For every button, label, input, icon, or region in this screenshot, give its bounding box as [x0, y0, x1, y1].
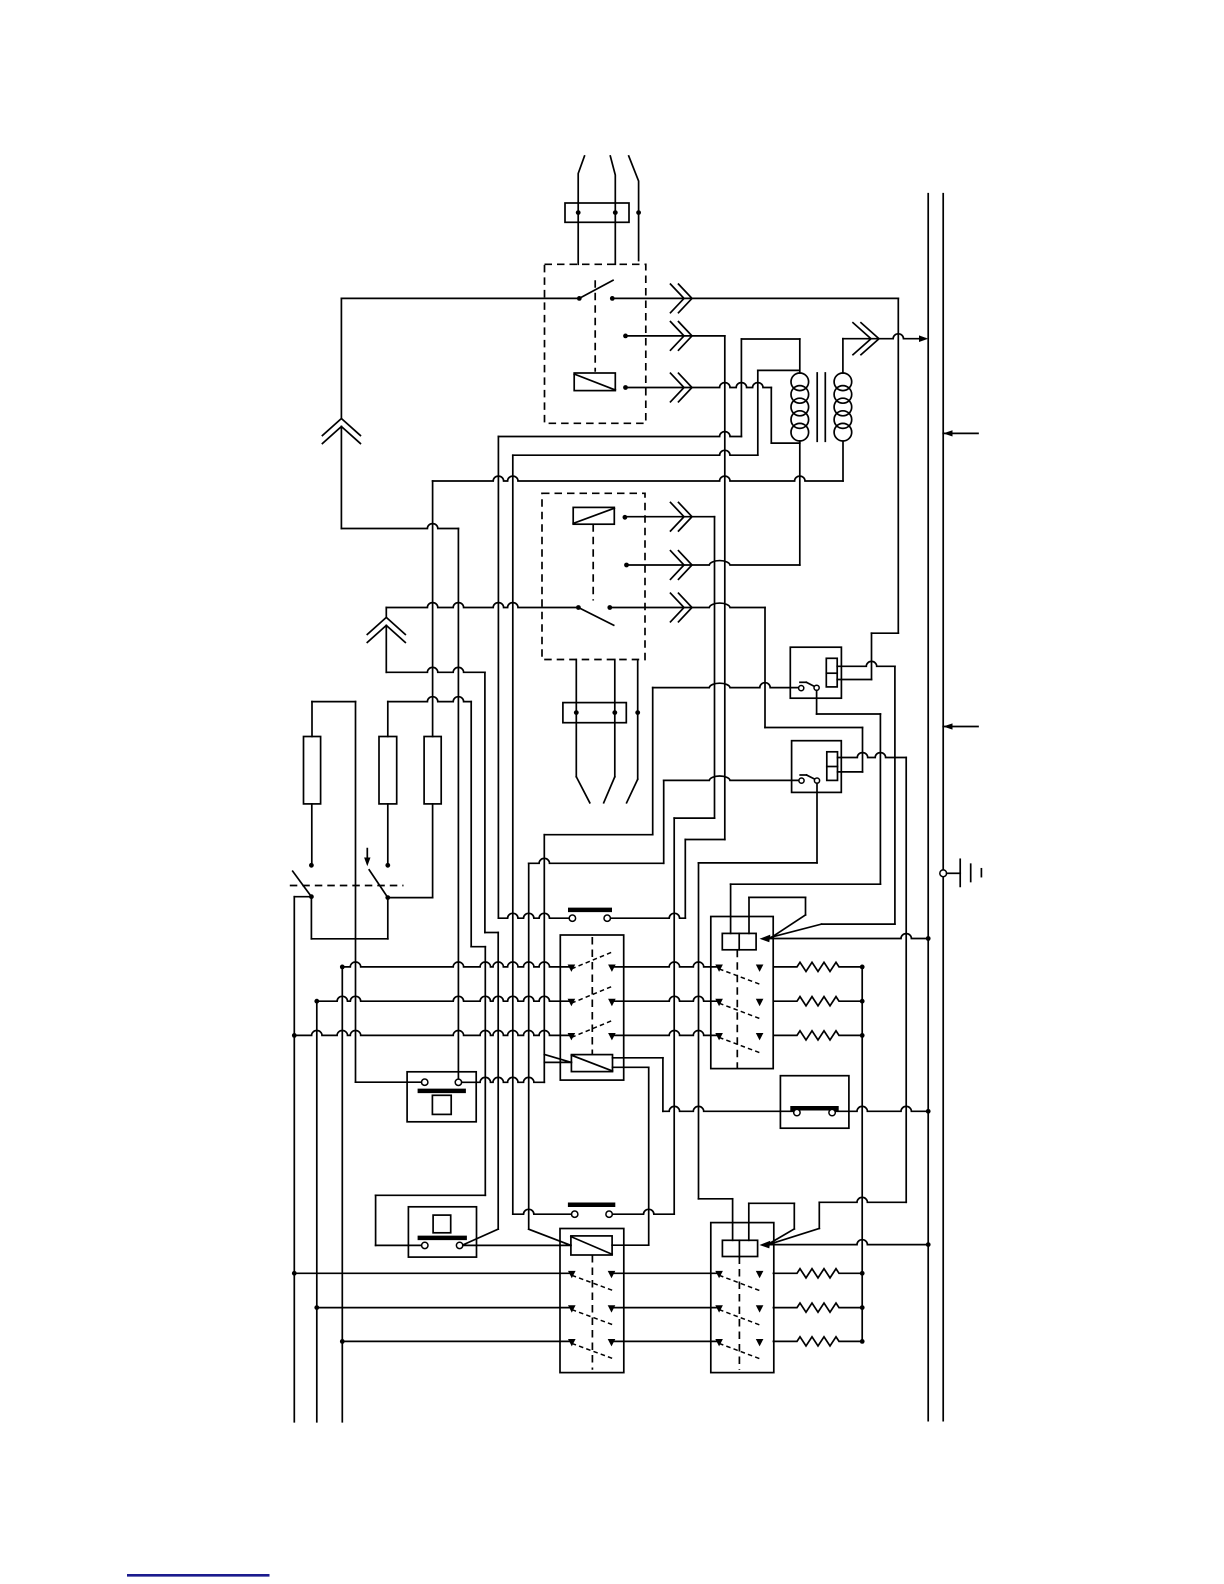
- wire row3 mid: [612, 1031, 719, 1036]
- transformer T1 core: [816, 373, 818, 441]
- wire KR2 cell2 feed: [748, 1203, 750, 1240]
- wire row2 drop to pushbutton S1: [684, 840, 686, 919]
- wire lateral y1202: [819, 1197, 906, 1202]
- wire KR1 cell1 feed: [730, 884, 732, 933]
- resistor KR2 row2: [773, 1303, 862, 1312]
- arrow KR2: [760, 1241, 771, 1249]
- node X2 pin2: [612, 710, 617, 715]
- connector chevron up CN1: [322, 419, 360, 436]
- plug prong 2: [604, 777, 615, 803]
- KR1 contact row1 R: [756, 965, 764, 972]
- wire rowB2 phase: [317, 1307, 572, 1309]
- switch gang dashed link: [290, 885, 404, 887]
- node bus y1244: [926, 1242, 931, 1247]
- KR2 contact row1 R: [756, 1271, 764, 1278]
- KR1 contact row2 R: [756, 999, 764, 1006]
- KR2 contact row3 R: [756, 1339, 764, 1346]
- wire M3 right to bus: [835, 1106, 928, 1111]
- wire rowB3 phase: [342, 1340, 572, 1342]
- wire A1 coil-bottom lead: [837, 679, 871, 681]
- wire drop x498b: [497, 933, 499, 1230]
- switch Q1 fixed contact: [309, 863, 314, 868]
- wire B1 switch drop: [816, 783, 818, 863]
- wire lateral y924: [822, 923, 895, 925]
- wire A1 switch lateral y714: [817, 713, 881, 715]
- wire drop x485: [484, 947, 486, 1196]
- wire S1 left feed: [498, 913, 569, 918]
- wire row1 drop right: [897, 298, 899, 633]
- M2 contact L: [422, 1242, 428, 1248]
- wire drop x544: [543, 835, 545, 1083]
- connector chevron up CN2: [367, 617, 405, 634]
- wire diagonal to KR2 arrow: [770, 1229, 795, 1244]
- wire K2 pin1 drop: [575, 660, 577, 777]
- relay A1 coil box: [826, 658, 837, 687]
- KR2 pilot box: [722, 1240, 757, 1256]
- wire plug pin 1 lead: [578, 156, 584, 264]
- coil KL2 diagonal: [571, 1237, 612, 1255]
- wire R2 bottom lead: [387, 804, 389, 865]
- wire KL1 coil out upper: [613, 1057, 663, 1059]
- switch K1 contact A: [577, 296, 582, 301]
- wire K2 row3 right: [610, 603, 765, 607]
- wire riser below CN1: [340, 426, 342, 528]
- wire diagonal to KR1 arrow: [771, 924, 822, 937]
- KR1 dashed link: [736, 950, 738, 1069]
- switch Q2 blade: [369, 870, 388, 898]
- KL2 contact row3 R: [608, 1339, 616, 1346]
- arrow into bus: [919, 335, 928, 342]
- switch K2 contact B: [607, 605, 612, 610]
- wire F lateral y455: [513, 450, 758, 455]
- wire drop x880: [879, 714, 881, 884]
- switch A1 blade: [800, 681, 806, 683]
- M1 contact R: [455, 1079, 461, 1085]
- wire K2 row1 drop: [714, 517, 716, 818]
- KL2 blade row2: [572, 1310, 613, 1325]
- coil K1 diagonal: [574, 374, 615, 390]
- ground symbol: [940, 870, 947, 877]
- bus line N: [942, 194, 944, 1421]
- wire row3 to T1 primary bottom: [771, 442, 800, 444]
- KL1 contact row2 L: [568, 999, 576, 1006]
- node bus y938: [926, 936, 931, 941]
- wire lateral y672: [386, 667, 485, 672]
- wire A1 feed H2: [653, 683, 799, 688]
- wire R2 top lead: [387, 702, 389, 737]
- contactor KL2 box: [560, 1229, 624, 1373]
- wire drop x484: [484, 672, 486, 932]
- node Q2 bottom: [385, 895, 390, 900]
- KL2 contact row2 R: [608, 1305, 616, 1312]
- pushbutton S1 bar: [568, 908, 612, 913]
- wire KL1 coil left diagonal: [544, 1054, 571, 1062]
- coil K2 box: [573, 507, 614, 524]
- wire drop x794: [793, 1203, 795, 1229]
- resistor KR1 row1: [773, 962, 862, 971]
- wire Q1-Q2 link: [311, 938, 387, 940]
- node resistor bus row1b: [860, 1271, 865, 1276]
- switch K1 blade: [579, 280, 613, 298]
- KR2 contact row2 R: [756, 1305, 764, 1312]
- wire drop x674 to S2: [673, 818, 675, 1214]
- node X2 pin1: [574, 710, 579, 715]
- wire R1 bottom lead: [311, 804, 313, 865]
- node pin3: [636, 210, 641, 215]
- contactor KR1 box: [711, 917, 773, 1069]
- M3 bar: [790, 1106, 838, 1111]
- KR1 contact row3 R: [756, 1033, 764, 1040]
- M1 contact L: [422, 1079, 428, 1085]
- KR2 contact row2 L: [715, 1305, 723, 1312]
- switch B1 blade: [800, 774, 806, 776]
- KR1 blade row2: [719, 1003, 760, 1019]
- wire drop x355: [355, 702, 357, 1083]
- wire R3 top lead: [432, 481, 434, 737]
- node Q1 bottom: [309, 894, 314, 899]
- relay B1 coil box: [827, 752, 838, 781]
- wire riser CN2 lower: [385, 625, 387, 672]
- wire K2 row2 to T1 primary: [627, 561, 800, 565]
- node resistor bus row1: [860, 965, 865, 970]
- wire row1 to A1 jog: [872, 632, 899, 634]
- wire KL2 coil right lead: [612, 1244, 649, 1246]
- wire rowB1 mid: [612, 1272, 720, 1274]
- wire lateral y1198: [699, 1198, 733, 1200]
- plug prong 3: [627, 779, 638, 803]
- actuation arrow: [366, 849, 368, 862]
- wire KR1 cell2 feed: [748, 897, 750, 933]
- wire row3 phase: [294, 1031, 571, 1036]
- node K2 row2 out: [624, 563, 629, 568]
- coil KL2 box: [571, 1236, 612, 1255]
- operator M3 box: [780, 1076, 849, 1129]
- wire row2 jog at bottom: [685, 839, 725, 841]
- connector chevron K2 row2: [671, 551, 685, 580]
- relay A1 box: [790, 647, 841, 698]
- wire K2 row1 jog: [674, 817, 714, 819]
- wire lateral y897: [749, 896, 806, 898]
- node row1 tap: [340, 965, 345, 970]
- connector chevron row1: [671, 284, 685, 313]
- footer rule: [127, 1574, 270, 1577]
- connector chevron K2 row3: [671, 593, 685, 622]
- wire drop x316: [316, 1001, 318, 1422]
- wire riser CN2 upper: [385, 608, 387, 618]
- switch Q1 blade: [293, 871, 312, 897]
- KL1 blade row1: [571, 952, 612, 969]
- operator M2 box: [408, 1207, 476, 1257]
- wire T1 secondary bottom lead: [842, 441, 844, 481]
- KL2 blade row1: [572, 1275, 613, 1290]
- wire K2 row3 left: [386, 603, 578, 608]
- wire R1 top lateral: [312, 701, 356, 703]
- KL1 dashed link: [591, 937, 593, 1055]
- KR1 contact row1 L: [715, 965, 723, 972]
- node rowB2 tap: [314, 1305, 319, 1310]
- wire drop x662: [662, 1058, 664, 1112]
- KR2 blade row3: [719, 1343, 760, 1359]
- wire A1 coil-bottom drop: [871, 633, 873, 679]
- KL2 contact row1 R: [608, 1271, 616, 1278]
- wire B1 coil-bottom lead: [838, 771, 863, 773]
- node K2 coil out: [623, 515, 628, 520]
- wire diagonal2 to KR2 arrow: [770, 1228, 819, 1244]
- wire KL1 coil out lower: [613, 1066, 649, 1068]
- wire row1 mid: [612, 962, 719, 967]
- wire drop x342: [341, 967, 343, 1422]
- resistor KR1 row2: [773, 997, 862, 1006]
- wire T1 secondary top lead: [842, 339, 844, 373]
- node resistor bus row3: [860, 1033, 865, 1038]
- wire secondary to bus: [843, 334, 926, 339]
- M1 bar: [418, 1089, 466, 1094]
- node resistor bus row2: [860, 999, 865, 1004]
- wire lateral y834: [544, 834, 652, 836]
- wire K2 row3 drop: [764, 608, 766, 728]
- wire KR2 cell1 feed: [732, 1199, 734, 1241]
- wire H1 lateral y481: [433, 476, 843, 481]
- connector chevron row2: [671, 322, 685, 351]
- pushbutton S1 contact L: [569, 915, 575, 921]
- wire row2 phase: [317, 996, 572, 1001]
- wire drop x805: [805, 897, 807, 915]
- KL1 contact row3 L: [568, 1033, 576, 1040]
- wire to PB2 left: [376, 1244, 422, 1246]
- wire rowB3 mid: [612, 1340, 720, 1342]
- KL1 contact row1 R: [608, 965, 616, 972]
- wire drop x375: [375, 1195, 377, 1245]
- KR1 pilot box: [722, 933, 756, 949]
- KR2 contact row3 L: [715, 1339, 723, 1346]
- wire jog y946: [471, 946, 485, 948]
- resistor R2 body: [379, 737, 397, 804]
- wire row2 long drop: [724, 336, 726, 840]
- pushbutton S2 bar: [568, 1202, 615, 1207]
- KL1 blade row2: [571, 986, 612, 1003]
- wire K1 row1 riser left: [340, 298, 342, 418]
- wire K1 row3 to transformer: [626, 383, 772, 388]
- wire E lateral y436: [498, 432, 741, 437]
- wire T1 primary top lateral: [741, 338, 799, 340]
- KL2 contact row1 L: [568, 1271, 576, 1278]
- coil KL1 box: [571, 1055, 612, 1072]
- KL1 blade row3: [571, 1020, 612, 1037]
- wire lateral y1195: [376, 1194, 486, 1196]
- wire drop x819: [818, 1202, 820, 1228]
- connector chevron secondary: [853, 323, 871, 355]
- wire T1 primary bottom lead: [799, 441, 801, 565]
- node resistor bus row2b: [860, 1305, 865, 1310]
- arrow KR1: [760, 935, 771, 943]
- connector chevron K2 row1: [671, 502, 685, 531]
- wire resistor bus vertical: [861, 967, 863, 1342]
- M2 bar: [418, 1236, 467, 1241]
- switch Q2 fixed contact: [385, 863, 390, 868]
- contactor KL1 box: [560, 935, 623, 1080]
- wire T1 primary top lead: [799, 339, 801, 373]
- wire A1 coil-top drop: [894, 666, 896, 924]
- node pin2: [613, 210, 618, 215]
- wire K2 row3 jog: [765, 727, 863, 729]
- wire row3 drop: [770, 388, 772, 444]
- M3 contact L: [794, 1109, 800, 1115]
- wire KR2 arrow to bus: [768, 1240, 928, 1245]
- wire lateral y528: [341, 524, 458, 529]
- node row2 tap: [314, 999, 319, 1004]
- wire drop x648: [648, 1067, 650, 1245]
- relay B1 box: [792, 741, 842, 793]
- bus line L: [927, 194, 929, 1421]
- switch K2 blade: [578, 608, 613, 626]
- M2 square: [433, 1215, 451, 1233]
- transformer T1 primary winding: [791, 373, 809, 391]
- wire drop x528: [528, 863, 530, 1229]
- wire drop x652: [652, 688, 654, 835]
- wire drop x498 to S1: [497, 437, 499, 919]
- KL1 contact row3 R: [608, 1033, 616, 1040]
- wire lateral y863: [529, 858, 664, 863]
- wire A1 coil-top lead: [837, 661, 895, 666]
- wire M1 right out: [462, 1077, 545, 1082]
- wire A1 switch drop: [816, 690, 818, 714]
- wire diagonal to PB2 right: [462, 1229, 498, 1245]
- KR1 contact row2 L: [715, 999, 723, 1006]
- node X2 pin3: [635, 710, 640, 715]
- coil K1 box: [574, 373, 615, 391]
- K1 actuator dashed link: [594, 280, 596, 372]
- wire drop x698: [698, 863, 700, 1199]
- wire M1 left feed: [356, 1081, 422, 1083]
- node pin1: [576, 210, 581, 215]
- switch B1 contact R: [814, 778, 819, 783]
- wire drop x458: [457, 529, 459, 1080]
- wire S1 right: [611, 913, 686, 918]
- wire rowB2 mid: [612, 1307, 720, 1309]
- KR2 dashed link: [738, 1257, 740, 1370]
- wire R2 top lateral: [388, 697, 471, 702]
- M2 contact R: [456, 1242, 462, 1248]
- KL2 dashed link: [591, 1255, 593, 1370]
- wire drop to B1 coil: [862, 728, 864, 772]
- wire drop x741: [740, 339, 742, 437]
- M3 contact R: [829, 1109, 835, 1115]
- node bus y1111: [926, 1109, 931, 1114]
- KR2 blade row2: [719, 1310, 760, 1326]
- KR1 contact row3 L: [715, 1033, 723, 1040]
- wire lateral y1203: [749, 1202, 795, 1204]
- contactor KR2 box: [711, 1223, 774, 1373]
- switch K2 contact A: [576, 605, 581, 610]
- KL1 contact row2 R: [608, 999, 616, 1006]
- bus tick lower: [943, 726, 978, 728]
- resistor R3 body: [424, 737, 441, 804]
- node rowB3 tap: [340, 1339, 345, 1344]
- wire K2 pin2 drop: [614, 660, 616, 777]
- wire diagonal steep to arrow: [771, 915, 806, 938]
- switch B1 contact L: [799, 778, 804, 783]
- wire M2 right to L2 coil: [463, 1244, 571, 1246]
- KR2 contact row1 L: [715, 1271, 723, 1278]
- KR1 blade row3: [719, 1037, 760, 1053]
- wire KL1 coil left lateral: [544, 1061, 571, 1063]
- node K1 coil out: [623, 385, 628, 390]
- pushbutton S1 contact R: [604, 915, 610, 921]
- wire KR1 arrow to bus: [768, 934, 928, 939]
- wire lateral y884: [731, 883, 881, 885]
- pushbutton S2 contact R: [606, 1211, 612, 1217]
- wire drop x512 to S2: [512, 455, 514, 1214]
- wire diagonal to L2 coil: [529, 1229, 571, 1245]
- KL2 blade row3: [572, 1343, 613, 1358]
- coil KL1 diagonal: [571, 1055, 612, 1071]
- wire K1 row1 left to bus node: [341, 297, 579, 299]
- wire rowB1 phase: [294, 1272, 572, 1274]
- connector X2 block: [563, 703, 626, 723]
- bus tick upper: [943, 432, 978, 434]
- resistor KR2 row1: [773, 1269, 862, 1278]
- resistor KR2 row3: [773, 1337, 862, 1346]
- M1 square: [432, 1095, 451, 1114]
- wire S2 left feed: [513, 1209, 572, 1214]
- wire drop x471: [470, 702, 472, 947]
- wire Q2 bottom riser: [387, 898, 389, 939]
- KR1 blade row1: [719, 969, 760, 985]
- wire plug pin 2 lead: [610, 156, 615, 264]
- wire S2 right: [613, 1209, 675, 1214]
- switch A1 contact L: [799, 686, 804, 691]
- wire row1 phase: [342, 962, 571, 967]
- coil K2 diagonal: [573, 508, 614, 523]
- wire B1 switch lateral y862: [699, 862, 818, 864]
- transformer T1 secondary winding: [834, 373, 852, 391]
- pushbutton S2 contact L: [572, 1211, 578, 1217]
- wire plug pin 3 lead: [629, 156, 639, 261]
- node resistor bus row3b: [860, 1339, 865, 1344]
- switch A1 contact R: [814, 685, 819, 690]
- wire K2 row1: [625, 516, 715, 518]
- wire B1 coil-top lead: [838, 753, 907, 758]
- wire row2 mid: [612, 996, 719, 1001]
- wire B1 feed: [664, 776, 799, 780]
- wire B1 coil-top drop: [905, 758, 907, 1203]
- connector X1 block: [565, 203, 629, 222]
- wire drop x663: [663, 780, 665, 863]
- wire Q1 left: [294, 896, 311, 898]
- wire drop x757: [757, 370, 759, 455]
- wire Q2 to R3: [388, 897, 433, 899]
- switch K1 contact B: [610, 296, 615, 301]
- relay K2 dashed enclosure: [542, 493, 645, 659]
- KR2 blade row1: [719, 1275, 760, 1291]
- wire Q1 bottom drop: [310, 897, 312, 939]
- wire T1 primary tap lateral y370: [758, 369, 800, 371]
- K2 actuator dashed link: [592, 524, 594, 600]
- wire R3 bottom lead: [432, 804, 434, 898]
- wire K2 pin3 drop: [637, 661, 639, 779]
- KL2 contact row2 L: [568, 1305, 576, 1312]
- wire drop x294: [293, 897, 295, 1422]
- resistor KR1 row3: [773, 1031, 862, 1040]
- wire K1 row2: [626, 335, 725, 337]
- KL2 contact row3 L: [568, 1339, 576, 1346]
- node row3 tap: [292, 1033, 297, 1038]
- node rowB1 tap: [292, 1271, 297, 1276]
- KL1 contact row1 L: [568, 965, 576, 972]
- wire M3 left feed: [663, 1106, 794, 1111]
- relay K1 dashed enclosure: [545, 264, 646, 423]
- operator M1 box: [407, 1072, 476, 1122]
